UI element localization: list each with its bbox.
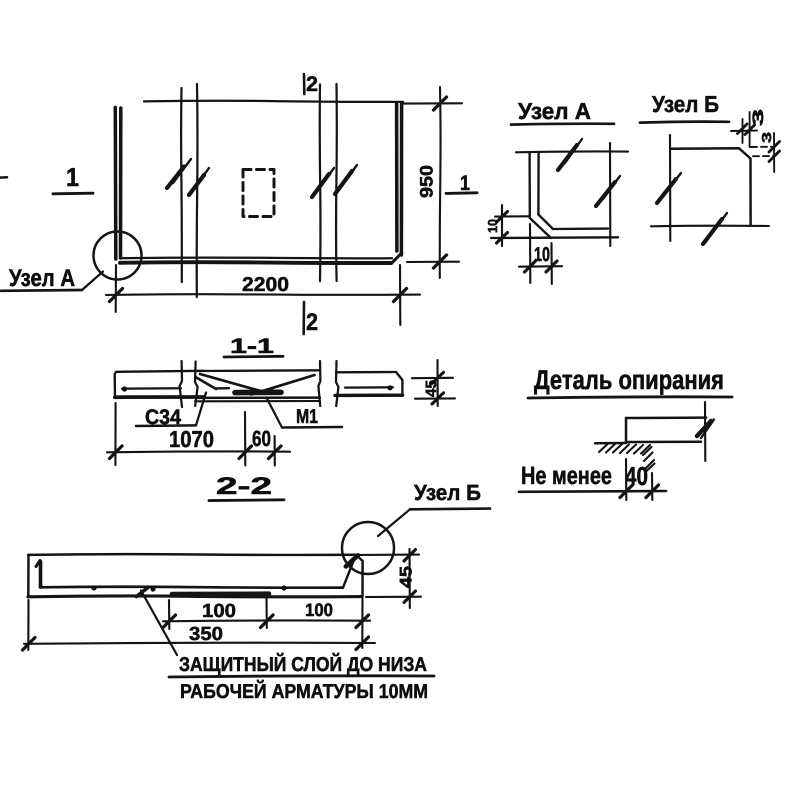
plan bottom-right chamfer [391,253,402,264]
mark 1 left: underline [53,192,93,195]
label C34 underline [136,424,196,427]
break slash left line [657,179,676,203]
dim 10: tick 2 [546,261,557,272]
ext line c [361,598,363,648]
svg-text:1-1: 1-1 [230,335,274,358]
rebar line [40,585,343,589]
dim 10: tick 1 [525,261,536,272]
svg-text:100: 100 [305,600,333,620]
tick left [110,289,123,302]
svg-text:М1: М1 [296,406,318,428]
svg-text:350: 350 [189,624,223,645]
break slash upper [558,145,577,170]
svg-text:2200: 2200 [242,274,289,296]
svg-text:40: 40 [625,461,648,491]
break slash on rebar 2a [312,174,329,197]
heading underline [528,397,732,398]
mark 2 top: tick line [303,74,306,94]
left edge stub [0,176,7,179]
dim 10: dim line [519,265,562,268]
break line pair 2 [318,361,320,406]
panel left face [625,418,627,442]
outer contour: left face [528,152,531,218]
leader line [141,591,177,656]
right slab right face [401,380,403,395]
svg-text:Узел Б: Узел Б [414,480,481,505]
rebar line pair 1 [180,88,183,282]
mark 1 right: underline [446,191,477,194]
plan right edge rib (thick double line) [395,104,399,252]
plan bottom edge rib thick line [120,260,391,265]
rebar hook left [39,562,43,588]
wall right face hatching [643,447,652,455]
ext line right [399,265,401,325]
left dim tick 1 [497,212,508,223]
dashed opening rectangle [243,170,274,217]
svg-text:45: 45 [423,380,440,397]
right dim dashed ext 2 [753,155,775,157]
dim ext 2 [651,473,653,500]
right dim tick 1 [769,142,780,153]
svg-text:Деталь опирания: Деталь опирания [534,365,724,395]
tick c [269,446,282,459]
mesh M1 thick bar [235,389,281,395]
dim 45: ext top [412,377,453,380]
middle slab top [196,369,320,372]
middle slab bottom line a [196,396,320,399]
dim 45: tick bottom [404,591,416,603]
node B leader [378,509,410,536]
inner contour: left face [537,152,540,215]
tick top [434,97,447,110]
outer bottom face (with left extension) [491,236,618,239]
dimension line [106,293,420,296]
dim line / underline [519,490,666,493]
break slash on rebar 2b [335,171,352,194]
right dim dashed ext 1 [751,146,772,148]
tick a [110,446,123,459]
tick c [356,615,369,628]
dim line 100+100 [163,619,370,622]
right slab bottom [335,393,403,397]
dimension line [439,87,442,278]
rebar dot a [91,585,96,590]
tick right [394,289,407,302]
top dim ext line [742,119,744,143]
top dim tick 1 [738,124,748,134]
right dim line [773,133,775,172]
mesh bar bottom [172,591,269,596]
dim ext 1 [625,459,627,500]
dim ext right [274,436,276,466]
right haunch slope short [251,389,272,395]
dim 45: tick top [432,372,444,383]
right haunch slope [258,375,315,393]
tick d [23,638,36,651]
ext stub left [495,215,529,217]
svg-text:60: 60 [252,426,271,451]
break slash on rebar 1a [167,167,184,189]
dim tick 2 [646,485,659,498]
svg-text:3: 3 [750,109,767,126]
label M1 underline [282,426,342,429]
break line pair 1 [180,361,182,407]
left slab left rounded end [115,372,117,397]
ext line far-left [27,600,29,650]
svg-text:Узел А: Узел А [518,98,591,124]
right slab chamfer [396,372,402,380]
svg-text:2-2: 2-2 [216,473,272,500]
dim 45: ext bottom [415,397,455,399]
left rebar line [122,387,181,390]
dim 45: line [436,360,438,406]
dim line 350 [24,643,375,644]
svg-text:Не менее: Не менее [521,462,612,490]
tick b [239,446,252,459]
heading underline [511,122,614,126]
node A leader [82,272,103,291]
node B circle [342,522,394,574]
plan left edge rib (thick double line) [114,108,118,260]
label M1 leader [267,399,282,428]
right break line [609,143,611,246]
svg-text:2: 2 [306,73,318,96]
tick b [261,615,274,628]
middle slab bottom line b [195,400,320,402]
panel break line right [704,402,706,461]
left rebar dot [122,386,127,391]
break slash on rebar 1b [189,175,204,195]
svg-text:3: 3 [759,132,774,143]
right dim tick 2 [769,151,780,162]
node A circle [94,232,142,280]
left haunch hook [216,387,229,390]
outer chamfer [530,218,551,238]
plan top edge line [144,101,403,102]
slab left face [27,555,30,597]
right rebar dot [387,385,392,390]
contour top with chamfer and right face [671,148,751,225]
leader tick [137,588,149,597]
break slash lower [596,182,615,206]
inner bottom face [553,227,608,230]
dim 45: ext top [357,554,419,557]
svg-text:10: 10 [485,219,500,233]
top dim line [731,130,757,132]
rebar bend right [343,561,354,588]
dim ext mid [244,412,246,466]
right rebar line [345,386,393,389]
svg-text:1: 1 [66,162,79,192]
svg-text:1070: 1070 [169,426,214,452]
plan bottom edge rib thin line [121,256,392,259]
wall top surface [595,442,626,445]
slab bottom [28,594,362,598]
ext line b [265,598,267,628]
ext line a [168,600,170,629]
left dim tick 2 [497,233,508,244]
svg-text:100: 100 [202,601,236,622]
dim ext left [114,403,116,465]
node B label underline [410,507,490,510]
slab top [28,553,356,556]
dim 10: ext line 2 [550,243,552,284]
left break line [669,135,671,241]
svg-text:950: 950 [417,165,437,198]
tick a [163,615,176,628]
top dim tick 2 [745,125,755,135]
ext line left [115,265,117,312]
break slash [697,421,711,436]
dim tick 1 [620,485,633,498]
svg-text:Узел А: Узел А [9,265,75,292]
ext line bottom [407,261,459,263]
left slab bottom (thick) [115,395,204,399]
svg-text:РАБОЧЕЙ АРМАТУРЫ 10ММ: РАБОЧЕЙ АРМАТУРЫ 10ММ [180,679,428,703]
heading underline [209,498,284,502]
svg-text:2: 2 [306,309,318,336]
right slab top [336,371,396,374]
dim line 1070/60 [107,450,290,453]
mark 2 bottom: tick line [302,302,305,334]
tick bottom [434,255,447,268]
panel bottom [626,440,701,443]
dim 45: line [408,549,410,608]
slab right face [361,561,364,597]
dim 45: tick top [404,550,416,562]
dim 45: ext bottom [366,596,421,598]
top dim ext line 2 (corner extended) [749,112,751,147]
heading underline [224,355,283,359]
left slab top [117,371,203,372]
break slash bottom line [703,219,722,244]
slab right chamfer [356,555,363,561]
rebar dot b [150,586,155,591]
wall hatching [599,444,608,452]
label C34 leader [196,393,206,426]
rebar dot c [281,585,286,590]
left small dim line [501,205,503,246]
svg-text:ЗАЩИТНЫЙ СЛОЙ ДО НИЗА: ЗАЩИТНЫЙ СЛОЙ ДО НИЗА [179,652,427,676]
ext line top [403,102,462,104]
svg-text:Узел Б: Узел Б [652,91,719,117]
bottom break line [651,225,769,228]
panel top [626,416,706,419]
node A label underline [1,289,82,293]
tick e [356,637,369,650]
rebar line pair 2 [319,85,322,282]
note underline [169,676,434,677]
dim 10: ext line 1 [529,224,531,283]
heading underline [640,120,729,124]
top break line [516,150,628,153]
inner chamfer [538,215,553,230]
left haunch slope [200,374,266,393]
svg-text:10: 10 [534,244,550,266]
left haunch slope short [196,377,217,389]
dim 45: tick bottom [432,393,444,404]
svg-text:45: 45 [397,566,416,588]
